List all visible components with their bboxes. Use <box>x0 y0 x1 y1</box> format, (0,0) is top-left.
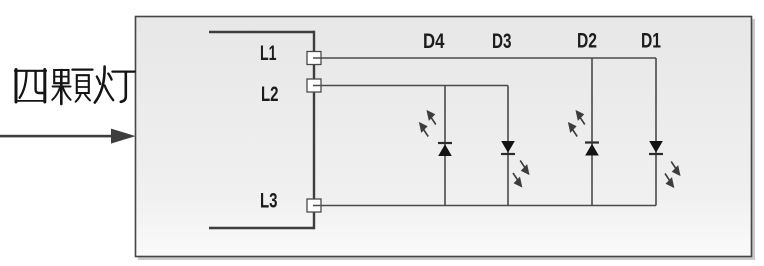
terminal L1 <box>307 52 321 65</box>
LED D1 (cathode down, pointing down) <box>649 141 679 187</box>
LED D4 (anode down, pointing up) <box>420 111 452 156</box>
terminal L2 <box>307 79 321 92</box>
enclosure box shadow <box>138 19 755 260</box>
glyph 灯 <box>95 67 135 103</box>
label 四颗灯 (hand-drawn glyphs) <box>15 67 135 105</box>
LED D2 (anode down, pointing up) <box>569 111 599 155</box>
svg-text:D2: D2 <box>577 30 597 53</box>
glyph 四 <box>15 70 46 103</box>
wire: D3 branch vertical <box>507 86 509 206</box>
wire: D4 branch vertical <box>444 86 446 206</box>
svg-text:L3: L3 <box>260 190 278 213</box>
svg-text:D1: D1 <box>641 30 661 53</box>
wire: L1 net (top rail) <box>313 57 656 59</box>
wire: D2 branch vertical <box>591 58 593 206</box>
glyph 颗 <box>52 70 92 104</box>
enclosure box <box>136 17 752 257</box>
svg-text:D4: D4 <box>423 30 445 53</box>
svg-text:L1: L1 <box>260 42 277 65</box>
terminal L3 <box>307 199 321 212</box>
pointer arrow into box <box>0 129 136 144</box>
wire: bottom-left stub <box>209 227 314 229</box>
svg-text:D3: D3 <box>492 30 512 53</box>
wire: L3 net (bottom rail) <box>313 205 656 207</box>
LED D3 (cathode down, pointing down) <box>501 141 528 186</box>
wire: left bus vertical <box>313 31 315 229</box>
svg-text:L2: L2 <box>261 83 279 106</box>
wire: top-left stub <box>209 31 314 33</box>
wire: D1 branch vertical <box>655 58 657 206</box>
wire: L2 net (middle rail) <box>313 85 508 87</box>
